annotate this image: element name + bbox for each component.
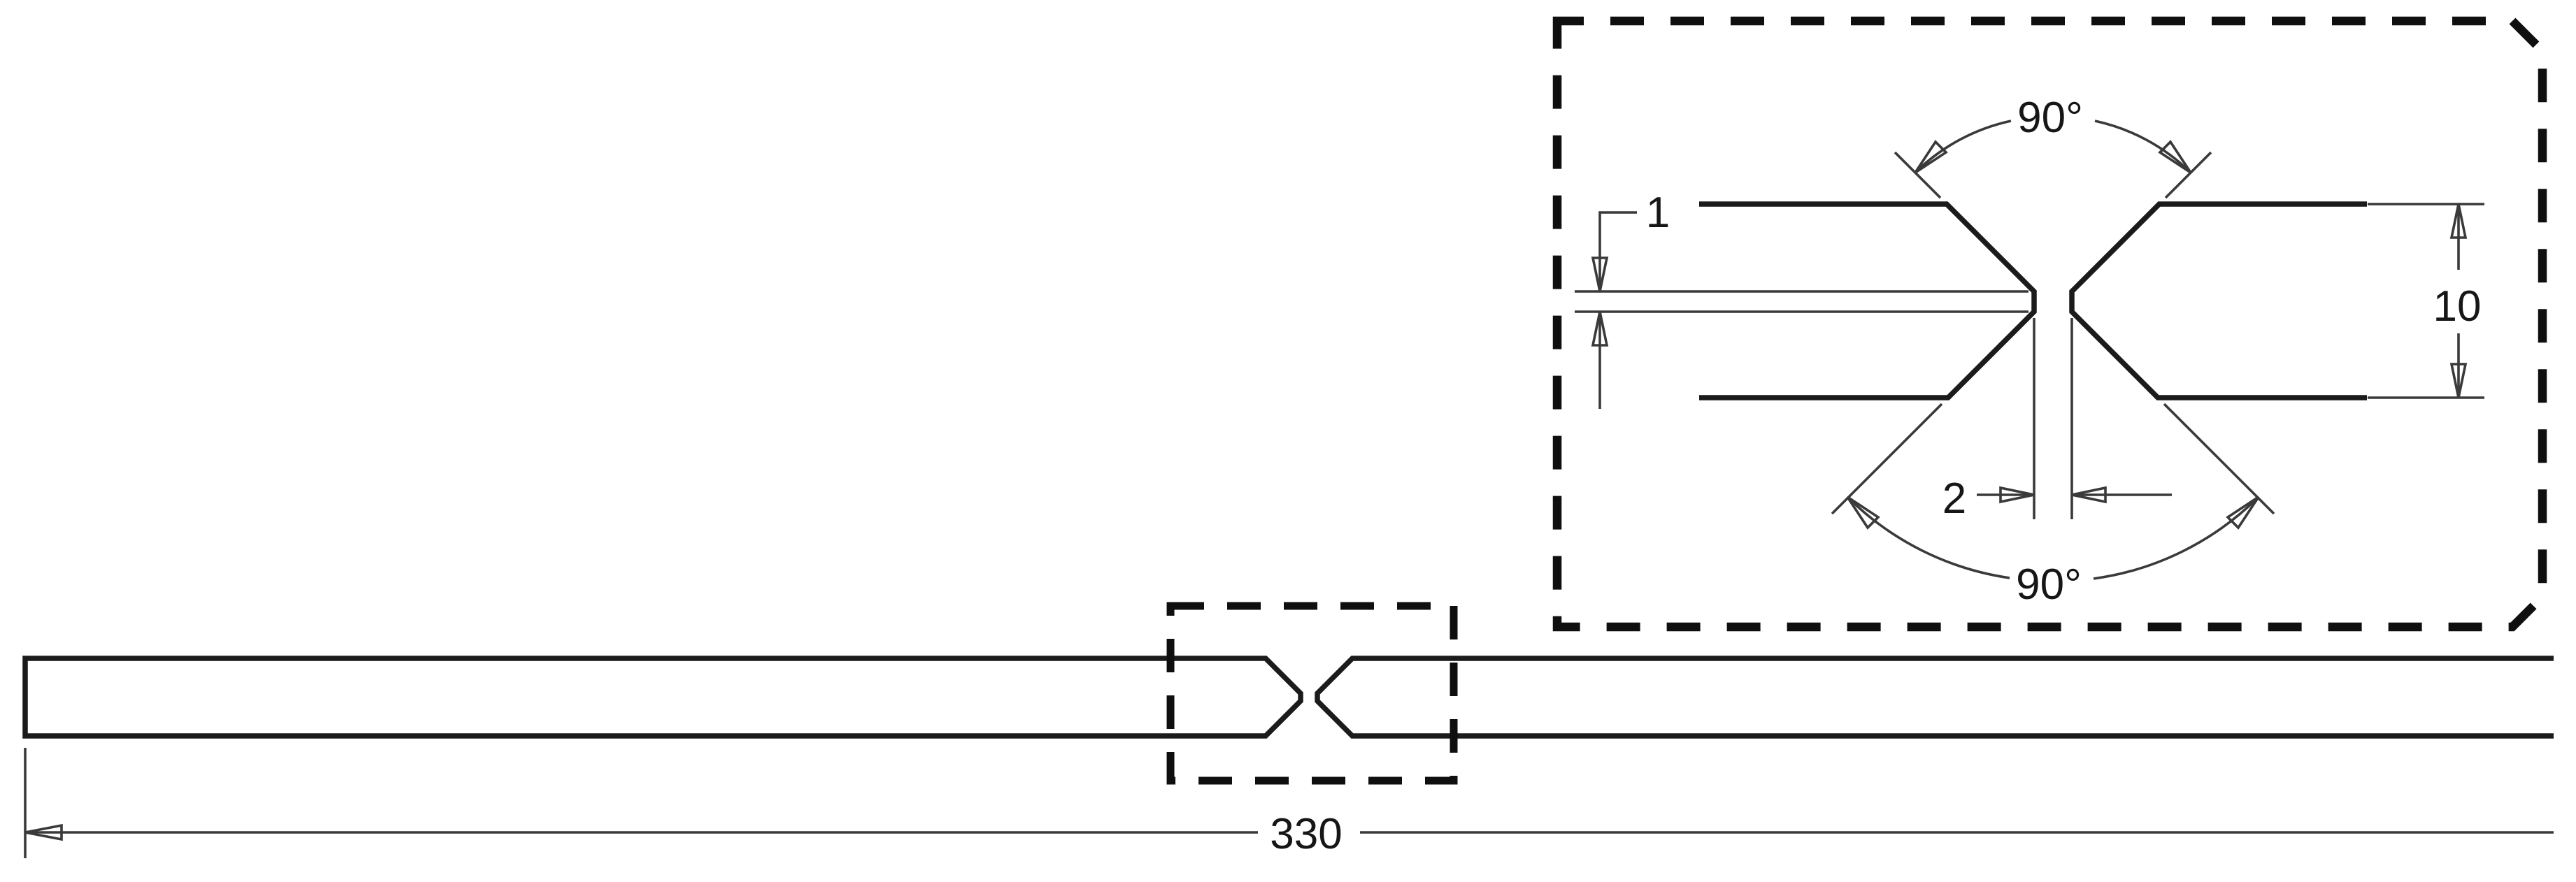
dim 1: bottom open arrow (points up) [1593, 312, 1607, 345]
svg-text:330: 330 [1270, 810, 1342, 858]
dim 10: top open arrow (points up) [2452, 204, 2466, 238]
svg-text:90°: 90° [2016, 561, 2082, 609]
bottom 90 dim: left extension of bevel line [1832, 404, 1942, 514]
dim 2: right extension line (below right root face) [2070, 318, 2073, 519]
dim 2: right open arrow (points left) [2072, 488, 2105, 502]
svg-text:10: 10 [2433, 282, 2482, 331]
dimension line 330 (right part) [1360, 831, 2554, 834]
big dashed detail boundary box (chamfered right corners) [1557, 21, 2542, 627]
bottom 90 dim: right extension of bevel line [2164, 404, 2274, 514]
top 90 dim: right extension of bevel line [2166, 152, 2211, 198]
dim 10: bottom open arrow (points down) [2452, 364, 2466, 398]
dim 2: right tail line [2072, 493, 2172, 496]
svg-text:2: 2 [1942, 475, 1966, 523]
top 90 dim: left arc arrow [1915, 142, 1946, 173]
bottom 90 dim: right arc arrow [2228, 497, 2259, 528]
open arrow pointing left at x=36 [25, 825, 62, 839]
dim 1: top open arrow (points down) [1593, 258, 1607, 291]
svg-text:90°: 90° [2017, 94, 2083, 142]
dim 10: extension line bottom [2368, 396, 2484, 399]
svg-text:1: 1 [1646, 189, 1670, 237]
left plate (detail view) [1699, 204, 2034, 398]
dim 2: left extension line (below left root face) [2033, 318, 2035, 519]
dim 2: left tail line [1977, 493, 2034, 496]
top 90 dim: arc right segment [2095, 121, 2191, 173]
small dashed detail-callout box around joint [1171, 606, 1454, 781]
top 90 dim: right arc arrow [2160, 142, 2191, 173]
top 90 dim: left extension of bevel line [1895, 152, 1940, 198]
bottom 90 dim: left arc arrow [1847, 497, 1878, 528]
root-face extension line (lower) [1575, 310, 2028, 313]
dim 10: extension line top [2368, 203, 2484, 205]
left plate (main view) [25, 658, 1301, 736]
right plate (main view) [1317, 658, 2554, 736]
dimension line 330 (left part) [25, 831, 1258, 834]
dim 1: leader jog [1600, 212, 1637, 291]
dim 2: left open arrow (points right) [2001, 488, 2034, 502]
root-face extension line (upper) [1575, 290, 2028, 293]
dim 10: dimension line lower segment [2457, 333, 2460, 398]
dim 10: dimension line upper segment [2457, 204, 2460, 270]
bottom 90 dim: arc left segment [1847, 497, 2010, 578]
right plate (detail view) [2072, 204, 2367, 398]
bottom 90 dim: arc right segment [2094, 497, 2259, 579]
top 90 dim: arc left segment [1915, 121, 2011, 173]
dimension 330 [25, 748, 2554, 858]
extension line at left end of 330 [24, 748, 27, 858]
dim 1: lower tail line [1598, 312, 1601, 409]
